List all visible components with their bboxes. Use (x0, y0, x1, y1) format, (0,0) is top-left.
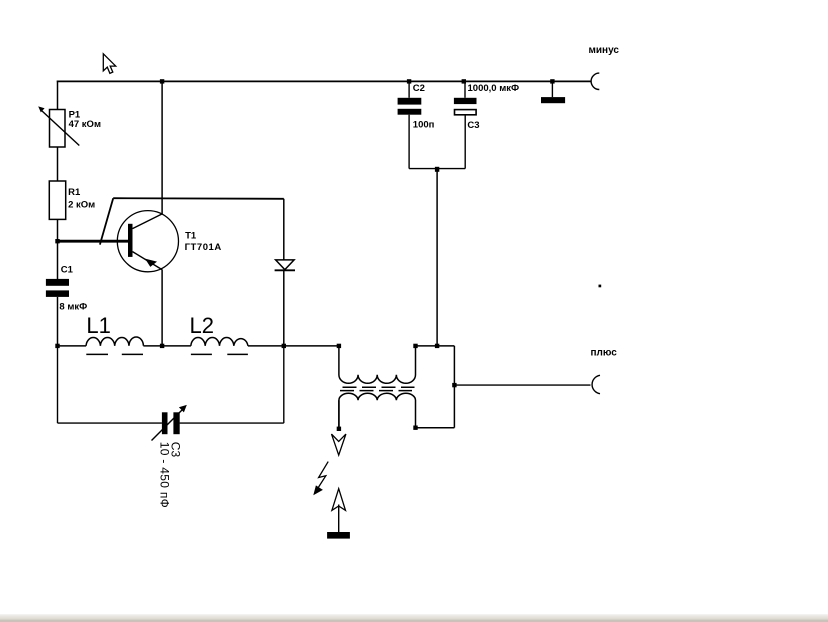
svg-text:1000,0 мкФ: 1000,0 мкФ (468, 83, 520, 94)
inductor L2 (191, 338, 248, 355)
diode VD1 (275, 260, 295, 270)
node junction tank transformer (337, 344, 341, 348)
transformer primary winding (339, 346, 416, 383)
svg-text:100п: 100п (413, 119, 435, 130)
potentiometer P1 arrow (38, 106, 79, 145)
wire tank bus middle (143, 345, 191, 347)
node junction C2C3 (435, 167, 439, 172)
potentiometer P1 body (50, 110, 66, 148)
node junction base (55, 239, 59, 243)
wire transformer bottom link (416, 427, 455, 429)
variable capacitor C3 plates (162, 412, 180, 434)
wire earth lead (338, 505, 340, 533)
node junction tank collector (160, 344, 164, 348)
wire transformer top link (416, 345, 455, 347)
svg-text:L2: L2 (190, 313, 214, 338)
svg-text:минус: минус (589, 45, 620, 56)
svg-text:ГТ701А: ГТ701А (185, 242, 222, 253)
node junction secondary right (413, 426, 417, 430)
wire top bus (57, 80, 591, 82)
resistor R1 body (49, 181, 65, 219)
wire diode cathode vertical (283, 270, 285, 346)
wire C3 bottom lead (464, 116, 466, 169)
svg-text:10 - 450 пФ: 10 - 450 пФ (158, 442, 172, 508)
ground bar (327, 532, 350, 539)
wire tank frame left (57, 346, 59, 423)
wire C2 top lead (408, 81, 410, 97)
wire left rail top (57, 81, 59, 111)
wire tank frame bottom left (58, 422, 162, 424)
lightning bolt (313, 462, 328, 496)
svg-text:плюс: плюс (591, 347, 618, 358)
wire P1 to R1 (57, 147, 59, 182)
node junction top-collector (160, 79, 164, 83)
capacitor C1 plates (46, 279, 69, 297)
wire collector rail lower (161, 270, 163, 346)
variable capacitor C3 arrow (152, 405, 187, 441)
capacitor C2 plates (398, 98, 422, 115)
arrow down open (332, 434, 346, 455)
inductor L1 (86, 337, 143, 354)
wire tank frame bottom right (180, 422, 284, 424)
status bar band (0, 614, 828, 622)
node junction drop (435, 344, 439, 348)
node junction plus tap (452, 383, 456, 387)
wire plus output (454, 384, 590, 386)
arrow up open (332, 489, 346, 511)
wire base to diode diagonal (100, 198, 113, 244)
node junction tank diode (282, 344, 286, 348)
wire C2 bottom lead (408, 115, 410, 169)
mouse cursor (103, 54, 115, 74)
node junction primary right (413, 344, 417, 348)
terminal minus jack (591, 73, 599, 89)
wire C2C3 drop (436, 169, 438, 346)
chassis bar (541, 97, 565, 103)
wire C2C3 bottom link (409, 168, 465, 170)
svg-text:2 кОм: 2 кОм (68, 200, 95, 211)
chassis stub lead (551, 81, 553, 97)
svg-text:47 кОм: 47 кОм (69, 119, 101, 130)
svg-text:C3: C3 (467, 120, 479, 131)
svg-text:8 мкФ: 8 мкФ (59, 302, 87, 313)
svg-text:L1: L1 (86, 313, 110, 338)
wire tank bus right (248, 345, 339, 347)
wire diode top horizontal (113, 197, 284, 200)
wire tank bus left (58, 345, 87, 347)
wire base (58, 240, 129, 243)
transformer secondary winding (339, 393, 416, 429)
transistor T1 (117, 211, 178, 272)
stray dot (599, 285, 602, 288)
wire diode anode vertical (283, 199, 285, 260)
svg-text:C2: C2 (413, 83, 425, 94)
node terminal secondary left (337, 427, 341, 431)
wire C3 top lead (464, 81, 466, 97)
wire R1 to C1 (57, 219, 59, 279)
svg-text:T1: T1 (185, 231, 197, 242)
wire C1 to tank (57, 297, 59, 346)
capacitor C3 electrolytic plates (454, 98, 477, 115)
transformer core (340, 387, 415, 390)
wire secondary left lead (338, 400, 340, 429)
terminal plus jack (592, 375, 600, 393)
node junction tank left (55, 344, 59, 348)
svg-text:C1: C1 (61, 265, 74, 276)
svg-text:R1: R1 (68, 187, 81, 198)
wire output right vertical (453, 346, 455, 428)
node junction top-C3 (462, 79, 466, 83)
label C3 10-450 пФ rotated (158, 442, 183, 508)
node junction top-C2 (407, 79, 411, 83)
node junction top-chassis (550, 79, 554, 83)
wire collector rail upper (161, 81, 163, 214)
wire tank frame right (283, 346, 285, 423)
